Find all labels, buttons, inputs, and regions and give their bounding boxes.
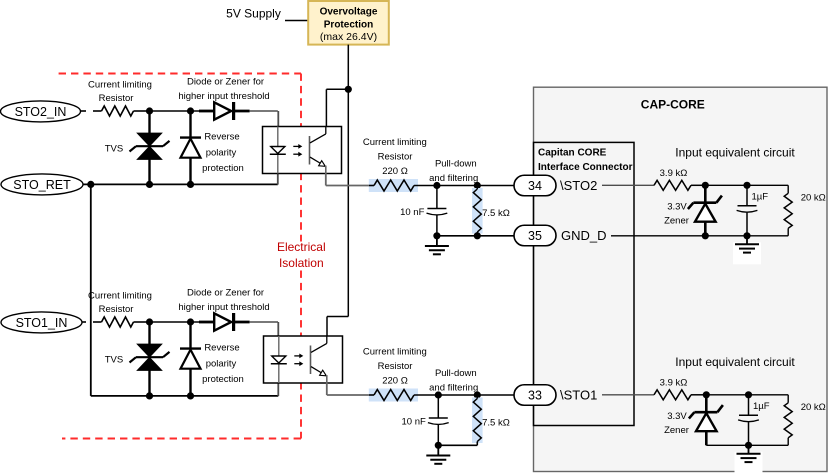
node STO_RET D1b: [187, 181, 194, 188]
svg-text:polarity: polarity: [206, 148, 237, 159]
wire pin to 3.9k row 1: [602, 184, 654, 186]
svg-text:Current limiting: Current limiting: [88, 80, 152, 91]
optocoupler U1 light arrows: [293, 145, 299, 147]
wire diode to optocoupler row 2: [250, 321, 278, 323]
wire STO_RET drop vertical: [90, 184, 92, 396]
svg-text:and filtering: and filtering: [429, 382, 478, 393]
svg-text:3.9 kΩ: 3.9 kΩ: [660, 378, 688, 389]
svg-text:Zener: Zener: [664, 425, 689, 436]
svg-text:7.5 kΩ: 7.5 kΩ: [482, 418, 510, 429]
node input rail junction 1 row 2: [146, 318, 153, 325]
resistor 3.9k row 1: [654, 180, 691, 190]
wire rail to diode row 1: [150, 110, 191, 112]
node filter top 2 row 2: [474, 391, 481, 398]
node cap top row 2: [745, 391, 752, 398]
resistor 3.9k row 2: [654, 390, 691, 400]
wire rail to diode row 2: [150, 321, 191, 323]
svg-text:higher input threshold: higher input threshold: [178, 302, 269, 313]
pin 33: [514, 385, 556, 406]
node input rail junction 2 row 1: [187, 107, 194, 114]
svg-text:polarity: polarity: [206, 359, 237, 370]
resistor 220 ohm row 2: [369, 394, 374, 396]
TVS D1a bidirectional suppressor: [148, 111, 150, 133]
resistor 20k row 1: [787, 185, 789, 193]
svg-text:220 Ω: 220 Ω: [382, 166, 408, 177]
node cap bottom row 1: [743, 232, 750, 239]
svg-text:7.5 kΩ: 7.5 kΩ: [482, 208, 510, 219]
ground equivalent row 1: [733, 242, 761, 264]
node STO_RET drop: [87, 181, 94, 188]
wire 5V supply to overvoltage box: [285, 20, 308, 22]
terminal STO_RET: [1, 174, 83, 195]
svg-text:Current limiting: Current limiting: [363, 347, 427, 358]
wire 7.5k bottom row 2: [438, 444, 477, 446]
svg-text:10 nF: 10 nF: [400, 207, 424, 218]
svg-text:Resistor: Resistor: [99, 304, 134, 315]
wire diode to optocoupler row 1: [250, 110, 278, 112]
pin 34: [514, 175, 556, 196]
wire filter ground rail to pin 35: [477, 235, 514, 237]
node filter top 1 row 1: [433, 182, 440, 189]
overvoltage protection block: [308, 1, 389, 45]
node filter top 1 row 2: [435, 391, 442, 398]
zener diode 3.3V row 1: [704, 185, 707, 202]
diode D2b reverse polarity protection: [189, 322, 191, 349]
svg-text:Reverse: Reverse: [204, 343, 239, 354]
wire zener to cap top row 2: [706, 394, 748, 396]
wire cap to 20k row 1: [747, 184, 788, 186]
svg-text:Isolation: Isolation: [279, 256, 324, 270]
wire LED1 cathode to STO_RET: [277, 174, 279, 185]
svg-text:Electrical: Electrical: [277, 240, 326, 254]
optocoupler U1 phototransistor: [309, 136, 311, 165]
svg-text:Input equivalent circuit: Input equivalent circuit: [675, 355, 795, 369]
diode D2c higher input threshold: [191, 321, 215, 323]
resistor 220 ohm row 1: [369, 185, 374, 187]
wire LED2 cathode to bottom rail: [277, 383, 279, 396]
TVS D2a bidirectional suppressor: [148, 322, 150, 344]
svg-text:Input equivalent circuit: Input equivalent circuit: [675, 146, 795, 160]
svg-text:35: 35: [528, 229, 542, 243]
svg-text:Zener: Zener: [664, 216, 689, 227]
svg-text:Protection: Protection: [324, 20, 373, 31]
svg-text:TVS: TVS: [105, 355, 123, 366]
terminal STO1_IN: [1, 312, 82, 333]
ground rail equivalent row 1: [611, 235, 788, 237]
svg-text:Diode or Zener for: Diode or Zener for: [187, 77, 264, 88]
wire 5V to U2 collector: [327, 316, 348, 318]
svg-text:3.9 kΩ: 3.9 kΩ: [660, 168, 688, 179]
svg-text:CAP-CORE: CAP-CORE: [641, 98, 705, 112]
capacitor 1uF row 1: [746, 185, 748, 206]
svg-text:Interface Connector: Interface Connector: [538, 162, 633, 173]
Capitan CORE interface connector box: [534, 142, 635, 425]
svg-text:Resistor: Resistor: [378, 152, 413, 163]
wire pin to 3.9k row 2: [602, 394, 654, 396]
resistor 7.5k row 1: [476, 186, 478, 190]
svg-text:10 nF: 10 nF: [402, 417, 426, 428]
svg-text:Reverse: Reverse: [204, 132, 239, 143]
CAP-CORE module box: [534, 87, 828, 471]
svg-text:1µF: 1µF: [753, 401, 770, 412]
pin 35: [514, 225, 556, 246]
svg-text:Pull-down: Pull-down: [435, 159, 477, 170]
svg-text:higher input threshold: higher input threshold: [178, 91, 269, 102]
ground filter row 2: [437, 446, 439, 456]
node bottom rail TVS2: [146, 392, 153, 399]
terminal STO2_IN: [1, 101, 81, 122]
wire node to 7.5k row 1: [437, 185, 477, 187]
resistor 7.5k row 2: [476, 395, 478, 399]
wire cap to 20k row 2: [749, 394, 789, 396]
wire 5V to U1 collector: [326, 88, 348, 90]
svg-text:1µF: 1µF: [752, 192, 769, 203]
svg-text:3.3V: 3.3V: [667, 411, 687, 422]
svg-text:protection: protection: [202, 374, 244, 385]
optocoupler U2 LED: [278, 336, 280, 383]
svg-text:STO_RET: STO_RET: [13, 178, 71, 192]
ground equivalent row 2: [735, 452, 763, 474]
node cap bottom row 2: [745, 442, 752, 449]
resistor R2a current limiting: [93, 321, 102, 323]
node zener top row 1: [702, 182, 709, 189]
svg-text:220 Ω: 220 Ω: [382, 376, 408, 387]
optocoupler U2 body: [264, 336, 343, 383]
svg-text:Current limiting: Current limiting: [88, 291, 152, 302]
svg-text:Resistor: Resistor: [378, 361, 413, 372]
svg-text:33: 33: [528, 388, 542, 402]
svg-text:GND_D: GND_D: [561, 228, 607, 243]
wire node to 7.5k row 2: [438, 394, 477, 396]
optocoupler U1 LED: [277, 127, 279, 174]
svg-text:STO1_IN: STO1_IN: [16, 316, 68, 330]
zener diode 3.3V row 2: [705, 395, 708, 412]
diode D1c higher input threshold: [191, 110, 215, 112]
svg-text:Resistor: Resistor: [99, 93, 134, 104]
svg-text:Current limiting: Current limiting: [363, 137, 427, 148]
node input rail junction 1 row 1: [146, 107, 153, 114]
svg-text:TVS: TVS: [105, 144, 123, 155]
svg-text:20 kΩ: 20 kΩ: [801, 402, 826, 413]
wire input rail row 1: [81, 110, 86, 112]
svg-text:Pull-down: Pull-down: [435, 368, 477, 379]
node 5V tap for U1: [345, 86, 352, 93]
wire zener to cap top row 1: [705, 184, 747, 186]
wire STO_RET rail: [83, 183, 278, 185]
svg-text:20 kΩ: 20 kΩ: [801, 193, 826, 204]
wire input rail row 2: [81, 321, 86, 323]
optocoupler U1 body: [263, 127, 342, 174]
capacitor 10nF row 1: [436, 186, 438, 209]
optocoupler U2 phototransistor: [310, 346, 312, 375]
svg-text:STO2_IN: STO2_IN: [15, 105, 67, 119]
node STO_RET TVS1: [146, 181, 153, 188]
wire to pin row 2: [477, 394, 514, 396]
diode D1b reverse polarity protection: [189, 111, 191, 138]
wire emitter to resistor row 1: [325, 174, 327, 186]
optocoupler U2 light arrows: [294, 355, 300, 357]
wire emitter to resistor row 2: [326, 383, 328, 395]
svg-text:3.3V: 3.3V: [667, 202, 687, 213]
wire 5V rail vertical: [347, 45, 349, 317]
node filter bottom row 1: [433, 232, 440, 239]
node filter bottom row 2: [435, 442, 442, 449]
resistor 20k row 2: [787, 395, 789, 403]
svg-text:(max 26.4V): (max 26.4V): [320, 31, 377, 43]
ground filter row 1: [436, 236, 438, 246]
wire STO1 bottom rail: [91, 395, 278, 397]
capacitor 10nF row 2: [437, 395, 439, 418]
ground rail equivalent row 2: [706, 444, 788, 446]
svg-text:\STO2: \STO2: [560, 178, 597, 193]
svg-text:5V Supply: 5V Supply: [226, 7, 281, 21]
svg-text:Capitan CORE: Capitan CORE: [538, 148, 607, 159]
resistor R1a current limiting: [93, 110, 102, 112]
wire to pin row 1: [477, 185, 514, 187]
node bottom rail D2b: [187, 392, 194, 399]
resistor 220 ohm highlight row 1: [369, 179, 418, 192]
svg-text:Diode or Zener for: Diode or Zener for: [187, 288, 264, 299]
capacitor 1uF row 2: [748, 395, 750, 416]
svg-text:protection: protection: [202, 163, 244, 174]
svg-text:Overvoltage: Overvoltage: [320, 7, 378, 18]
electrical isolation dashed boundary: [59, 73, 301, 75]
svg-text:\STO1: \STO1: [560, 388, 597, 403]
svg-text:34: 34: [528, 179, 542, 193]
node filter top 2 row 1: [474, 182, 481, 189]
node cap top row 1: [743, 182, 750, 189]
resistor 7.5k highlight row 1: [472, 188, 483, 234]
node input rail junction 2 row 2: [187, 318, 194, 325]
node zener top row 2: [703, 391, 710, 398]
resistor 220 ohm highlight row 2: [369, 389, 418, 402]
node 7.5k bottom row 1: [474, 232, 481, 239]
resistor 7.5k highlight row 2: [472, 398, 483, 444]
